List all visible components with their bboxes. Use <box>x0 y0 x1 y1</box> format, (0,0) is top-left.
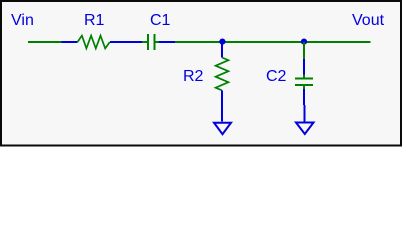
label R2 <box>183 69 203 85</box>
label C2 <box>266 69 286 85</box>
label R1 <box>84 13 104 29</box>
net label Vout <box>352 13 384 29</box>
wire node A to node B <box>222 41 304 43</box>
capacitor C1 <box>126 34 175 50</box>
node B junction dot <box>301 39 307 45</box>
wire node B to Vout <box>304 41 371 43</box>
node A junction dot <box>219 39 225 45</box>
ground under C2 <box>296 105 314 134</box>
ground under R2 <box>214 107 231 134</box>
wire C1 to node A <box>175 41 222 43</box>
capacitor C2 <box>295 59 313 105</box>
label C1 <box>150 13 170 29</box>
resistor R1 <box>62 36 127 49</box>
wire Vin to R1 <box>28 41 62 43</box>
net label Vin <box>11 13 34 29</box>
sheet background and frame (decorative) <box>0 0 404 150</box>
resistor R2 <box>216 42 229 107</box>
wire node B to C2 <box>303 42 305 59</box>
